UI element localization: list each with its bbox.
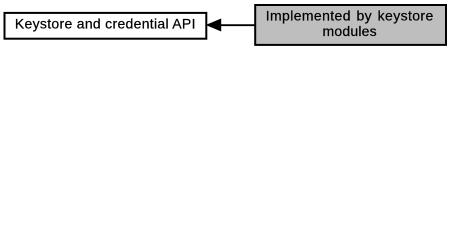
svg-text:Keystore and credential API: Keystore and credential API — [15, 16, 196, 32]
svg-text:modules: modules — [323, 23, 377, 39]
edge arrowhead pointing left at API box — [207, 19, 221, 30]
svg-text:Implemented by keystore: Implemented by keystore — [266, 8, 434, 24]
node: Implemented by keystore modules box — [255, 5, 446, 45]
node: Keystore and credential API box — [5, 13, 207, 39]
edge wire: arrow shaft — [219, 24, 255, 26]
